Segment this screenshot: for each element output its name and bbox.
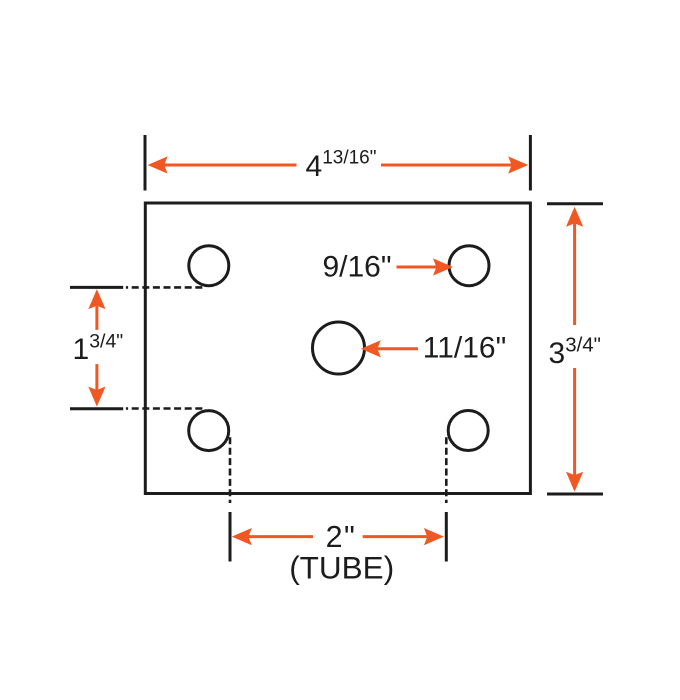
right dimension line lower segment <box>573 368 576 475</box>
svg-text:9/16": 9/16" <box>322 251 391 284</box>
top dimension left arrowhead <box>148 156 168 173</box>
hole top-left <box>189 246 229 286</box>
bottom dimension right arrowhead <box>424 528 444 545</box>
hole center <box>313 322 365 374</box>
top dimension left extension tick <box>144 135 147 191</box>
left dimension down arrowhead <box>88 387 105 407</box>
right dimension down arrowhead <box>566 472 583 492</box>
svg-text:33/4": 33/4" <box>549 334 601 371</box>
svg-text:11/16": 11/16" <box>423 332 507 365</box>
left dimension top dashed extension line <box>126 286 205 289</box>
9/16 leader line <box>397 266 437 269</box>
left dimension bottom extension tick <box>70 407 123 410</box>
top dimension right arrowhead <box>508 156 528 173</box>
right dimension line upper segment <box>573 224 576 326</box>
top dimension right extension tick <box>529 135 532 191</box>
11/16 leader arrowhead <box>361 340 381 357</box>
hole top-right <box>449 246 489 286</box>
svg-text:(TUBE): (TUBE) <box>289 550 394 586</box>
left dimension bottom dashed extension line <box>126 407 205 410</box>
11/16 leader line <box>378 347 419 350</box>
bottom dimension right extension tick <box>445 512 448 562</box>
left dimension up arrowhead <box>88 289 105 309</box>
right dimension up arrowhead <box>566 207 583 227</box>
hole bottom-left <box>189 411 229 451</box>
bottom dimension left extension tick <box>229 512 232 562</box>
left dimension line lower segment <box>95 364 98 390</box>
bottom dimension right dashed extension line <box>445 437 448 503</box>
bottom dimension left dashed extension line <box>229 437 232 503</box>
svg-text:13/4": 13/4" <box>73 331 124 367</box>
svg-text:413/16": 413/16" <box>306 148 377 184</box>
right dimension bottom extension tick <box>547 493 603 496</box>
bottom dimension line left segment <box>249 535 314 538</box>
hole bottom-right <box>448 411 488 451</box>
plate outline <box>145 203 530 494</box>
left dimension top extension tick <box>70 286 123 289</box>
bottom dimension left arrowhead <box>232 528 252 545</box>
9/16 leader arrowhead <box>433 258 453 275</box>
top dimension line right segment <box>381 164 512 167</box>
left dimension line upper segment <box>95 306 98 330</box>
bottom dimension line right segment <box>363 535 428 538</box>
top dimension line left segment <box>164 164 297 167</box>
right dimension top extension tick <box>547 202 603 205</box>
